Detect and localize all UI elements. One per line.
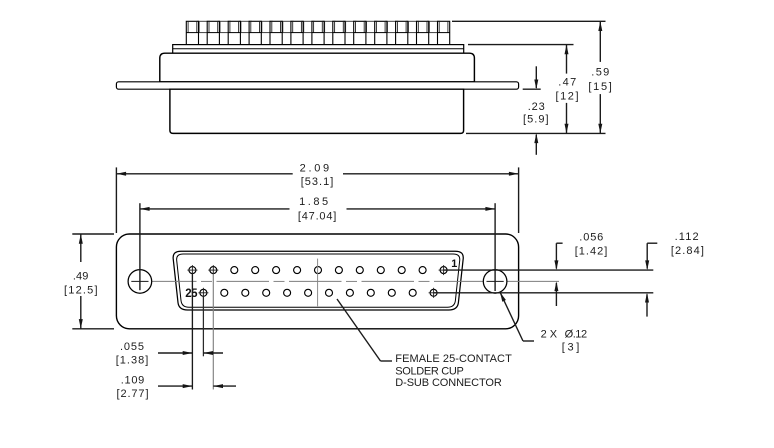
svg-text:.59: .59 <box>591 67 609 79</box>
svg-text:.056: .056 <box>579 232 603 244</box>
dimension .23 [5.9] with flange tick <box>523 66 549 155</box>
svg-text:Ø.12: Ø.12 <box>565 329 588 341</box>
svg-text:[1.38]: [1.38] <box>116 355 149 367</box>
front view: bottom row contacts (12) <box>198 288 438 298</box>
svg-text:[2.77]: [2.77] <box>117 388 149 400</box>
svg-text:[1.42]: [1.42] <box>575 246 608 258</box>
front view: top row contacts (13) <box>187 265 448 275</box>
contact row extension lines (right) <box>434 270 653 293</box>
svg-text:25: 25 <box>185 288 198 300</box>
contact extension lines for .055/.109 <box>192 274 213 390</box>
side view: front-row solder cup pins <box>186 21 449 44</box>
front view: horizontal centerline <box>131 280 559 282</box>
svg-text:[3]: [3] <box>562 342 580 354</box>
svg-text:.23: .23 <box>528 101 545 113</box>
side view: rear-row solder cup pins <box>197 21 439 44</box>
side view: metal shell upper body <box>160 53 475 82</box>
dimension .112 [2.84] <box>645 231 704 317</box>
svg-text:D-SUB CONNECTOR: D-SUB CONNECTOR <box>395 377 502 389</box>
svg-text:.47: .47 <box>558 76 576 88</box>
svg-text:[12.5]: [12.5] <box>64 284 98 296</box>
svg-text:2.09: 2.09 <box>300 162 330 174</box>
dimension .109 [2.77] <box>117 374 237 400</box>
front view: vertical centerline <box>317 259 319 307</box>
svg-text:1: 1 <box>451 258 457 270</box>
svg-text:[2.84]: [2.84] <box>671 245 704 257</box>
svg-text:1.85: 1.85 <box>299 196 328 208</box>
svg-text:SOLDER CUP: SOLDER CUP <box>395 365 464 377</box>
side view: insulator strip <box>173 45 464 54</box>
front view: D-shaped face (double outline) <box>173 251 463 310</box>
dimension .49 [12.5] <box>64 234 114 329</box>
dimension 2.09 [53.1] <box>116 162 518 233</box>
front view: right mounting hole <box>483 270 507 294</box>
svg-text:[5.9]: [5.9] <box>523 113 549 125</box>
dimension .47 [12] with extension line <box>468 45 579 134</box>
pin 1 label <box>451 258 457 270</box>
dimension .056 [1.42] <box>554 232 607 306</box>
front view: left mounting hole <box>128 270 152 294</box>
dimension .59 [15] with extension lines <box>452 21 612 133</box>
pin 25 label <box>185 288 198 300</box>
svg-text:.109: .109 <box>121 374 145 386</box>
note: FEMALE 25-CONTACT SOLDER CUP D-SUB CONNECTOR with leader <box>337 299 512 389</box>
dimension 1.85 [47.04] <box>140 196 495 291</box>
front view: mounting flange outline <box>116 234 518 329</box>
dimension 2X Ø.12 [3] with leader <box>500 292 587 353</box>
svg-text:[47.04]: [47.04] <box>298 210 337 222</box>
svg-text:.49: .49 <box>73 271 89 283</box>
side view: mounting flange plate <box>116 82 518 89</box>
svg-text:[53.1]: [53.1] <box>301 176 334 188</box>
svg-text:2X: 2X <box>541 329 558 341</box>
side view: lower connector body <box>170 89 464 133</box>
dimension .055 [1.38] <box>116 341 223 367</box>
svg-text:FEMALE 25-CONTACT: FEMALE 25-CONTACT <box>395 353 512 365</box>
svg-text:.112: .112 <box>675 231 699 243</box>
svg-text:.055: .055 <box>120 341 144 353</box>
